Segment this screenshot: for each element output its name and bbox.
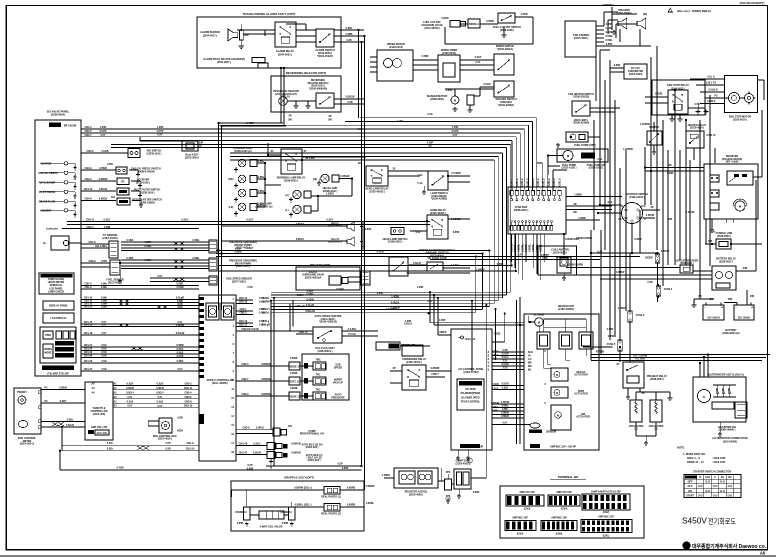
svg-text:0.5LgB: 0.5LgB [306,304,314,307]
svg-text:B: B [699,476,701,479]
heater unit bottom tag [530,444,540,448]
svg-text:(2538+9016 ): (2538+9016 ) [514,209,529,212]
svg-text:CN1-27: CN1-27 [84,368,93,371]
svg-text:0.22: 0.22 [416,231,421,234]
svg-text:0.85B/L (SOL-): 0.85B/L (SOL-) [295,504,312,507]
svg-text:0.5LgR: 0.5LgR [262,324,270,327]
fuse 3 [628,311,632,322]
svg-text:1.25BrP: 1.25BrP [437,331,446,334]
svg-text:O-O: O-O [698,494,703,497]
svg-text:(2538-9006): (2538-9006) [430,98,443,101]
svg-text:(2190-2410A ): (2190-2410A ) [629,196,645,199]
svg-text:0.5LW: 0.5LW [483,83,491,86]
svg-text:0.85W: 0.85W [441,17,449,20]
display panel box [43,301,74,310]
svg-text:0.5Br: 0.5Br [492,410,498,413]
wiper wiring [413,59,438,61]
svg-text:NOTE RELAY: NOTE RELAY [463,383,479,386]
svg-text:(21E5-4003A ): (21E5-4003A ) [430,212,446,215]
svg-text:0.5B: 0.5B [165,448,170,451]
svg-text:0.85RB: 0.85RB [347,504,356,507]
svg-text:CN3-4: CN3-4 [184,391,192,394]
svg-text:0.5LG: 0.5LG [492,350,499,353]
svg-text:ACC: ACC [705,476,711,479]
svg-text:CN1-47: CN1-47 [239,452,248,455]
svg-text:0.5BL: 0.5BL [67,419,74,422]
svg-text:ACC: ACC [640,205,646,208]
svg-text:DIODE 13: DIODE 13 [280,511,292,514]
svg-text:ACTUATOR: ACTUATOR [576,416,590,419]
battery relay [712,266,736,290]
r/d switch [128,149,140,158]
grapple relay 2 [324,504,340,512]
svg-text:(21E5-4002)x4: (21E5-4002)x4 [305,276,322,279]
svg-text:*(2190-2281(1): *(2190-2281(1) [497,48,514,51]
svg-text:BLOWER SPED: BLOWER SPED [461,396,479,399]
svg-text:[21E4-0014 ]: [21E4-0014 ] [20,443,34,446]
svg-text:0.85RL: 0.85RL [521,243,524,252]
svg-text:0.5RB: 0.5RB [346,33,353,36]
svg-text:(21E4-100S ): (21E4-100S ) [589,167,604,170]
resistor R alarm [240,30,244,40]
svg-text:: 21E4-1059: : 21E4-1059 [712,457,726,460]
svg-text:*(2190-2282(1): *(2190-2282(1) [498,104,515,107]
horn relay [427,215,448,239]
svg-text:CN2-7: CN2-7 [241,378,249,381]
svg-text:0.85B: 0.85B [342,467,349,470]
svg-text:(21EM-1016 ): (21EM-1016 ) [147,152,162,155]
svg-text:0.85R: 0.85R [497,263,504,266]
a/c panel bottom tag [460,444,480,448]
svg-text:(21E7-1002 ): (21E7-1002 ) [232,280,246,283]
svg-text:0.5RrB: 0.5RrB [59,387,67,390]
svg-text:Wire color : R(RED) B(BLK): Wire color : R(RED) B(BLK) [677,9,711,13]
a/c note box [457,379,484,410]
svg-text:MP CN SW: MP CN SW [64,125,77,128]
svg-text:(2538-9054 ): (2538-9054 ) [650,378,664,381]
car heater switch [572,101,590,116]
svg-text:P/U/GP +CP: P/U/GP +CP [401,344,415,347]
svg-text:RELAY: RELAY [282,96,290,99]
wire vertical drop alarm [218,123,220,310]
svg-text:(2538-9051 ): (2538-9051 ) [680,262,694,265]
svg-text:PWR: PWR [45,334,51,337]
pressure sensor rear pump [209,258,217,271]
svg-text:CN7-8: CN7-8 [88,241,96,244]
svg-text:CN1-16: CN1-16 [84,324,93,327]
heater resistor 2 [559,332,572,349]
compressor wiring [438,480,445,482]
svg-text:LAMP CHECK: LAMP CHECK [48,291,64,294]
svg-text:RC: RC [121,181,125,184]
svg-text:0.5T: 0.5T [518,254,523,257]
wire junction dots [240,29,242,31]
svg-text:0.85RrW: 0.85RrW [261,378,271,381]
svg-text:4P: 4P [393,367,396,370]
svg-text:ACTUATOR: ACTUATOR [574,374,588,377]
heater verticals [516,300,518,444]
svg-text:P 0.5G: P 0.5G [348,333,356,336]
svg-text:C: C [714,476,716,479]
head lamp [321,174,329,182]
terminal diagram box [500,486,644,538]
svg-text:0.5G: 0.5G [101,355,106,358]
svg-text:CN1-20: CN1-20 [186,448,195,451]
svg-text:FUSE 3: FUSE 3 [636,314,645,317]
svg-text:AIR CLEANER: AIR CLEANER [39,181,56,184]
svg-text:0.85RL: 0.85RL [290,357,299,360]
svg-text:ACTUATOR: ACTUATOR [574,393,588,396]
battery 2 [734,305,754,320]
alternator box [693,377,746,422]
svg-text:0.85RL: 0.85RL [290,372,299,375]
pressure sensor front pump [209,240,217,253]
air heater 2 [650,400,662,422]
svg-text:0.5GY: 0.5GY [247,247,254,250]
svg-text:(21E5-4002 ): (21E5-4002 ) [574,37,589,40]
svg-text:1 0.85GY: 1 0.85GY [451,218,462,221]
svg-text:SPEC 1 ~ 9: SPEC 1 ~ 9 [687,457,700,460]
svg-text:*(2190-4236(5): *(2190-4236(5) [573,122,590,125]
cabin lamp 1 [293,190,301,198]
wire vertical drop alarm right [361,42,363,466]
svg-text:*(2190-4236(1): *(2190-4236(1) [431,198,448,201]
svg-text:2R: 2R [650,206,653,209]
svg-text:2R: 2R [288,115,291,118]
svg-text:1.4W: 1.4W [397,120,403,123]
eng stop relay [668,90,688,114]
epos-v controller box [199,295,236,461]
svg-text:0.85GW: 0.85GW [341,175,351,178]
svg-text:(2538-9128 ): (2538-9128 ) [500,29,514,32]
svg-text:5.1A: 5.1A [417,182,422,185]
svg-text:SENSOR: SENSOR [546,431,557,434]
svg-text:0.85LG: 0.85LG [548,178,551,186]
svg-text:0.85B: 0.85B [282,522,289,525]
svg-text:O-O: O-O [698,485,703,488]
svg-text:O-O: O-O [705,481,710,484]
svg-text:0.85B: 0.85B [473,491,480,494]
svg-text:(2538+9103 )x4: (2538+9103 )x4 [234,150,252,153]
svg-text:CN2-13: CN2-13 [239,301,248,304]
svg-text:1.25B: 1.25B [417,286,424,289]
svg-text:0.5GY: 0.5GY [327,219,334,222]
svg-text:0.5G: 0.5G [427,113,432,116]
svg-text:LOW: LOW [177,417,183,420]
fuse 5 [618,340,622,351]
grapple diode 13 [244,507,251,520]
svg-text:0.5Br: 0.5Br [101,306,107,309]
svg-text:0.5Y: 0.5Y [502,422,507,425]
heater rows blower [492,351,524,353]
svg-text:0.5BrY: 0.5BrY [431,373,439,376]
right verticals [590,230,592,360]
svg-text:12V 100AH: 12V 100AH [738,317,751,320]
svg-text:0.5L: 0.5L [128,396,133,399]
svg-text:*(2190-2522C): *(2190-2522C) [317,55,334,58]
grapple relay 1 [324,487,340,495]
svg-text:0.85G: 0.85G [258,190,265,193]
svg-text:CN4-2: CN4-2 [84,178,92,181]
svg-text:0.45LA: 0.45LA [404,323,412,326]
svg-text:0.85GY: 0.85GY [296,223,305,226]
svg-text:CN4-7: CN4-7 [84,134,92,137]
svg-text:0.5P: 0.5P [165,442,170,445]
svg-text:0.5T: 0.5T [598,251,603,254]
fuel sensor [110,260,120,275]
panel row to R/D switch [81,152,128,154]
preheat bundle rows [583,346,613,348]
svg-text:(CN4): (CN4) [561,508,568,511]
svg-text:O-O: O-O [720,481,725,484]
svg-text:CN1-13: CN1-13 [84,306,93,309]
svg-text:0.85RrB: 0.85RrB [291,452,300,455]
left vertical pair drop [270,301,272,430]
svg-text:0.5GB: 0.5GB [491,383,498,386]
svg-text:1.6A: 1.6A [417,174,422,177]
svg-text:M: M [454,99,456,103]
svg-text:0.5LB B: 0.5LB B [708,89,717,92]
eng control meter box [14,388,41,434]
svg-text:C: C [644,218,646,221]
fuse top right feeds [547,166,549,191]
svg-text:CN2-3: CN2-3 [239,312,247,315]
heater interior verticals [543,349,545,368]
svg-text:(CN5): (CN5) [524,508,531,511]
diode B [655,254,659,263]
diode A [468,19,480,28]
svg-text:CHARGE: CHARGE [41,162,52,165]
svg-text:CN4-8: CN4-8 [84,198,92,201]
svg-text:0.85R: 0.85R [608,335,615,338]
svg-text:2-2GB: 2-2GB [376,251,383,254]
svg-text:(Rt): (Rt) [643,13,647,16]
cabin lamp 2 [293,205,301,213]
svg-text:0.5WB: 0.5WB [486,20,494,23]
svg-text:(21E4-4016 ): (21E4-4016 ) [158,438,172,441]
svg-text:0.85RL: 0.85RL [518,243,521,252]
pump proportional valve [236,428,273,430]
svg-text:(2KS-00003): (2KS-00003) [723,441,737,444]
svg-text:0.85RW: 0.85RW [99,178,108,181]
svg-text:3.4GW: 3.4GW [306,299,314,302]
svg-text:(21E5-70940): (21E5-70940) [617,12,632,15]
svg-text:ST: ST [616,363,620,366]
svg-text:KEY: KEY [687,476,692,479]
company logo [683,542,690,549]
alternator diodes [716,388,719,393]
svg-text:0.85B: 0.85B [365,228,372,231]
svg-text:0.5Br: 0.5Br [101,286,107,289]
svg-text:BLOWER: BLOWER [534,314,545,317]
svg-text:CN4-9: CN4-9 [84,167,92,170]
svg-text:(21E3-0011 ): (21E3-0011 ) [108,281,122,284]
svg-text:2R: 2R [668,164,671,167]
svg-text:(21EN-1080S): (21EN-1080S) [139,201,155,204]
air heater 1 [630,400,642,422]
svg-text:0.5Y: 0.5Y [101,332,106,335]
svg-text:1.25RG: 1.25RG [326,193,335,196]
svg-text:0.5RrB: 0.5RrB [156,387,164,390]
svg-text:PROPORTIONAL V/V: PROPORTIONAL V/V [300,433,325,436]
svg-text:0.85RW (SOL+): 0.85RW (SOL+) [294,487,312,490]
heater sensor [530,423,540,428]
beacon wiring [287,100,316,102]
svg-text:OFF: OFF [688,481,693,484]
svg-text:0.85B/0.85RW: 0.85B/0.85RW [567,264,584,267]
svg-text:2 0.5RW: 2 0.5RW [451,172,461,175]
svg-text:0.5Y: 0.5Y [127,405,132,408]
speaker opt component [329,276,341,285]
svg-text:HP 40SB: HP 40SB [465,388,475,391]
svg-text:0.85BL: 0.85BL [366,502,375,505]
svg-text:: 21E4-1057: : 21E4-1057 [712,461,726,464]
blower top feed [544,318,587,320]
svg-text:0.5RG: 0.5RG [306,293,313,296]
svg-text:0.85GB: 0.85GB [99,198,108,201]
svg-text:SPEAKER (OPT): SPEAKER (OPT) [310,263,330,267]
svg-text:NOTE.: NOTE. [677,447,685,450]
eng control dial [159,418,172,433]
fuse box top pins [510,191,513,196]
svg-text:O-O: O-O [728,494,733,497]
svg-text:30B: 30B [668,218,673,221]
svg-text:B: B [621,205,623,208]
small relay box 2 [402,345,423,356]
svg-text:CN2-6: CN2-6 [242,426,250,429]
svg-text:M: M [557,414,559,417]
svg-text:0.5WL: 0.5WL [192,257,200,260]
resistor contacts [710,175,719,182]
svg-text:0.85LG: 0.85LG [521,178,524,186]
svg-text:0.85RrB: 0.85RrB [291,443,300,446]
svg-text:SPEED: SPEED [334,367,343,370]
svg-text:0.85LG: 0.85LG [553,178,556,186]
svg-text:0.85RL: 0.85RL [529,243,532,252]
lamp switch [428,171,448,190]
epos to diode rows [236,365,289,367]
svg-text:ATL 2RB: ATL 2RB [635,358,645,361]
svg-text:LED (+12: LED (+12 [465,338,476,341]
svg-text:0.5L: 0.5L [598,158,603,161]
svg-text:1.6RW: 1.6RW [578,217,586,220]
svg-text:0.85GY: 0.85GY [296,238,305,241]
svg-text:(2538-9052 ): (2538-9052 ) [719,260,733,263]
svg-text:1.25BrW: 1.25BrW [623,148,633,151]
defroster actuator [551,368,568,381]
svg-text:+: + [721,306,723,310]
accel actuator symbol [51,236,69,250]
wiper motor [377,50,413,81]
preheat relay [623,362,644,388]
svg-text:(CN1): (CN1) [603,535,610,538]
svg-text:0.5G: 0.5G [101,360,106,363]
svg-text:-: - [735,306,736,310]
svg-text:1.25B E: 1.25B E [707,100,716,103]
svg-text:(CN6): (CN6) [556,533,563,536]
svg-text:0.5GB: 0.5GB [101,150,108,153]
svg-text:0.5GW: 0.5GW [336,288,344,291]
svg-text:0.5L A: 0.5L A [707,76,714,79]
car heater resistor [566,132,588,142]
svg-text:3-WAY SOL VALVE: 3-WAY SOL VALVE [260,525,283,529]
alarm switch SW1 [316,29,334,47]
svg-text:1.25BrW: 1.25BrW [640,123,650,126]
svg-text:CN4-4: CN4-4 [84,126,92,129]
svg-text:0.5LB: 0.5LB [492,388,499,391]
svg-text:0.5RW: 0.5RW [176,344,184,347]
svg-text:M: M [538,321,540,325]
svg-text:0.5GY: 0.5GY [182,219,189,222]
svg-text:DIODE 12: DIODE 12 [289,396,301,399]
svg-text:(21E7-0010S): (21E7-0010S) [102,237,117,240]
svg-text:Lubricator: Lubricator [46,228,58,231]
grapple feed lines [266,465,362,467]
svg-text:0.5RA: 0.5RA [127,257,134,260]
working lamp relay [281,149,302,174]
svg-text:TAC: TAC [316,389,321,392]
svg-text:(21E5-40702): (21E5-40702) [464,371,479,374]
mode actuator [551,405,571,430]
wiper timer [438,55,460,82]
svg-text:DIODE 14: DIODE 14 [235,511,247,514]
svg-text:0.5Y: 0.5Y [157,405,162,408]
svg-text:ENG OIL PRESS: ENG OIL PRESS [39,172,58,175]
svg-text:0.5RA: 0.5RA [145,259,152,262]
svg-text:REAL PHOTO (1): REAL PHOTO (1) [321,496,341,499]
wiper switch [494,54,514,75]
svg-text:CN2-5: CN2-5 [241,363,249,366]
working lamp 3 [238,189,246,197]
heater unit box [524,314,599,450]
svg-text:0.5BrW: 0.5BrW [686,211,695,214]
svg-text:AMP 070 10P: AMP 070 10P [519,491,535,494]
svg-text:CN2-18 0.5GrB: CN2-18 0.5GrB [241,328,258,331]
svg-text:TPC: TPC [316,374,321,377]
a/c input rows [430,322,524,324]
beacon lamp [279,97,288,106]
svg-text:MODE: MODE [44,351,52,354]
svg-text:1.25B: 1.25B [100,126,107,129]
svg-text:0.5RrB: 0.5RrB [126,387,134,390]
diode 11 [289,377,300,385]
svg-text:(21E5-0003): (21E5-0003) [442,52,456,55]
svg-text:0.85W: 0.85W [296,294,304,297]
auto speed shifter [313,327,342,343]
working lamp 2 [238,175,246,183]
svg-text:(21T9-1005 ): (21T9-1005 ) [136,181,150,184]
svg-text:0.5GY: 0.5GY [104,219,111,222]
svg-text:CN1-18: CN1-18 [84,332,93,335]
svg-text:0.5WL: 0.5WL [144,245,152,248]
panel rows to pressure switches [81,169,116,171]
svg-text:M: M [556,374,558,377]
svg-text:0.5GrR: 0.5GrR [253,452,261,455]
alternator connector [735,402,747,418]
svg-text:0.5YB: 0.5YB [177,355,184,358]
blower motor [535,318,543,326]
svg-text:GRAPPLE ASS'Y(OPT): GRAPPLE ASS'Y(OPT) [284,476,314,480]
svg-text:(2538-9004): (2538-9004) [51,113,65,117]
svg-text:25B: 25B [710,298,715,301]
svg-text:(21E4-018 ): (21E4-018 ) [308,459,321,462]
svg-text:1.25W: 1.25W [520,13,528,16]
svg-text:0.85RrW: 0.85RrW [261,363,271,366]
svg-text:(21EL-3000B ): (21EL-3000B ) [212,382,228,385]
svg-text:CN1-45: CN1-45 [239,443,248,446]
svg-text:CN3-10: CN3-10 [184,405,193,408]
svg-text:0.5L: 0.5L [158,396,163,399]
